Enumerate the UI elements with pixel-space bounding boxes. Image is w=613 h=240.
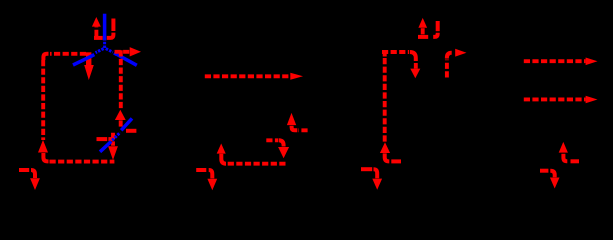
blue bond B2 down-left dotted from node C1 — [96, 49, 104, 53]
red arrowhead A5 up on left vertical — [38, 140, 48, 153]
red arrow A27 L-shaped pointing right in section 3 — [447, 49, 467, 78]
red arrowhead A9 up on vertical A8 — [115, 110, 126, 120]
blue bond B6 diagonal dotted at node C2 — [100, 132, 120, 151]
red vertical line A24 left of section 3 — [383, 53, 387, 143]
red loop A4 left vertical — [41, 60, 45, 140]
red arrowhead A25 up on vertical A24 — [380, 142, 390, 153]
red long arrow A30 lower right of section 4 — [524, 96, 598, 104]
red small arrow A14 bottom-left of section 1 — [19, 170, 40, 190]
blue arrow B3 solid down-left segment — [73, 55, 94, 65]
blue bond B4 down-right dotted from node C1 — [106, 49, 113, 53]
red arrow A1 up, left of bond B1 — [92, 17, 103, 38]
red path A26 bottom corner short tail of section 3 — [385, 153, 401, 161]
red long arrow A29 upper right of section 4 — [524, 58, 598, 66]
red arrow A31 L-shaped up in section 4 — [559, 142, 579, 161]
red arrow A21 up at top of section 3 — [418, 18, 428, 37]
red small arrow A32 bottom-left of section 4 — [540, 171, 560, 189]
red arrow A16 up at left of section 2 — [217, 144, 226, 164]
red hook A2 right of bond B1 — [107, 19, 114, 38]
red bar A12 left of node C2 — [97, 137, 113, 141]
red loop A4 bottom horizontal — [50, 160, 115, 164]
blue arrow B7 solid upper-right segment at node C2 — [121, 118, 132, 130]
red small arrow A20 bottom-left of section 2 — [196, 170, 217, 190]
red arrow A19 L-shaped up in section 2 — [287, 113, 308, 130]
red main horizontal line A17 of section 2 — [228, 162, 286, 166]
blue arrow B5 solid down-right segment — [114, 53, 137, 65]
red path A23 top horizontal with corner and down arrow — [382, 52, 420, 78]
red arrow A13 down at node C2 — [108, 133, 118, 160]
red vertical line A8 from arrow A3 down — [119, 50, 123, 110]
red bar A11 right of node C2 — [126, 129, 136, 133]
red small arrow A28 bottom-left of section 3 — [361, 169, 382, 190]
red vertical line A10 continuation to node C2 — [119, 120, 123, 128]
red loop A4 bottom-left corner — [43, 153, 48, 161]
red hook A22 top right of section 3 — [433, 21, 438, 37]
red arrow A7 down, left of node C1 — [84, 52, 94, 80]
red arrow A18 hook down onto line A17 — [266, 140, 289, 158]
blue bond B1 dotted lower part to node C1 — [103, 42, 106, 48]
red loop A4 top horizontal and top-left corner — [43, 54, 86, 60]
red reaction arrow A15 — [205, 73, 303, 80]
blue bond B1 vertical solid upper part — [103, 14, 107, 41]
red arrow A3 pointing right from node C1 — [115, 47, 142, 56]
